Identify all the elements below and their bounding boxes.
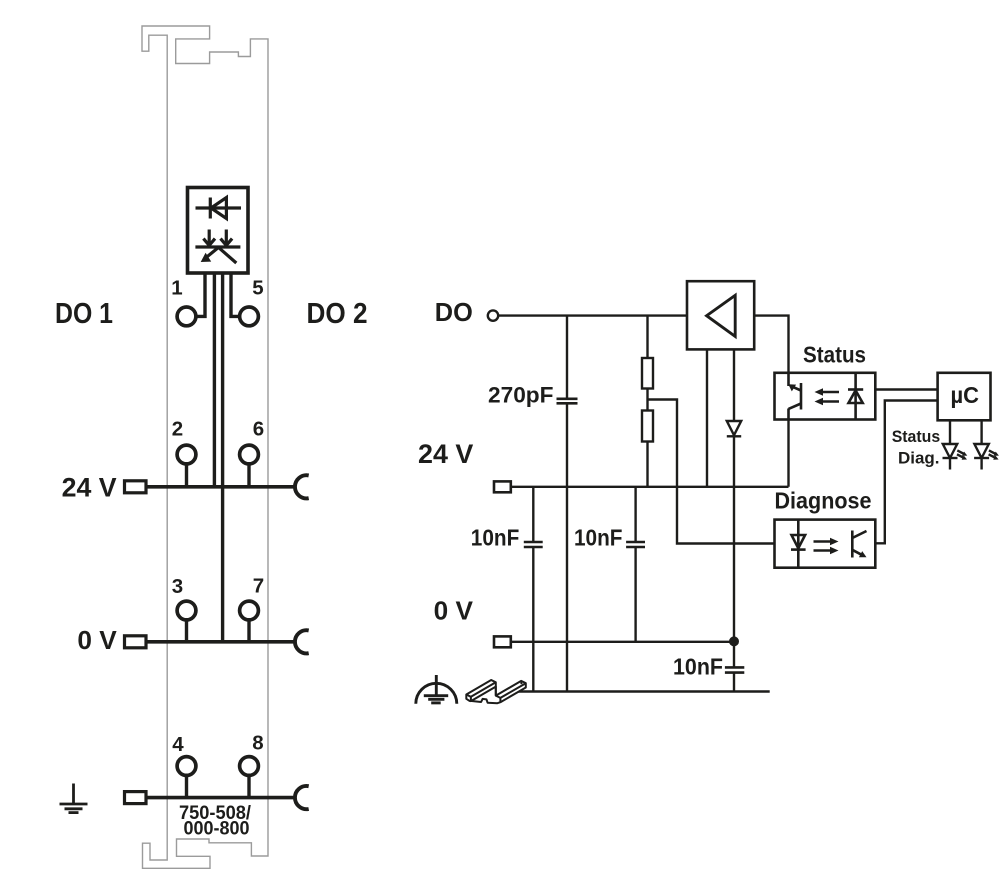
clamp opening earth: [125, 792, 147, 804]
capacitor C4 10nF: [725, 667, 744, 672]
LED Status indicator under uC: [943, 420, 968, 469]
pin 4 contact: [177, 757, 196, 776]
clamp symbol 24V (schematic): [494, 481, 511, 492]
suppressor diode in LED box: [196, 198, 242, 219]
resistor R1 wire upper: [646, 316, 648, 358]
op-amp U1 triangle: [707, 295, 736, 336]
wire DO to amplifier: [499, 314, 688, 316]
diode D1 (freewheel): [727, 421, 741, 436]
svg-text:Status: Status: [803, 342, 866, 368]
wire Status opto to 24V bus: [787, 420, 789, 487]
svg-text:Diagnose: Diagnose: [775, 488, 872, 514]
svg-text:10nF: 10nF: [574, 525, 623, 551]
phototransistor Q2 (Diagnose): [852, 531, 866, 558]
optocoupler U3 Diagnose box: [775, 520, 876, 568]
resistor R1: [642, 358, 653, 389]
functional earth dome symbol: [416, 675, 457, 704]
svg-text:0 V: 0 V: [434, 595, 474, 625]
capacitor C4 wire lower (to earth rail): [733, 673, 735, 692]
svg-text:Diag.: Diag.: [898, 450, 940, 468]
svg-text:10nF: 10nF: [673, 654, 723, 680]
pin 5 contact: [240, 307, 259, 326]
spring contact 24V (C shape): [295, 475, 309, 498]
svg-text:Status: Status: [892, 428, 941, 446]
capacitor C1 270pF wire upper: [566, 316, 568, 399]
wire pin5 to LED box: [231, 273, 239, 316]
DO terminal circle: [488, 310, 498, 320]
pin 2 contact: [177, 445, 196, 464]
svg-text:DO: DO: [435, 297, 473, 327]
LED symbol in LED box: [195, 230, 240, 264]
wire pin1 to LED box: [197, 273, 206, 316]
clamp opening 24V: [125, 481, 147, 493]
svg-text:270pF: 270pF: [488, 383, 554, 408]
resistor R2: [642, 411, 653, 442]
clamp opening 0V: [125, 636, 147, 648]
wire amp output to Status optocoupler: [754, 316, 789, 373]
pin 7 contact: [240, 601, 259, 620]
svg-text:0 V: 0 V: [77, 625, 117, 655]
svg-text:1: 1: [171, 277, 182, 300]
capacitor C2 10nF wire upper: [532, 487, 534, 542]
module outline (gray housing profile): [142, 26, 268, 868]
0V bus wire (schematic): [511, 641, 734, 643]
capacitor C3 10nF: [626, 542, 645, 547]
pin 6 stem: [247, 464, 250, 487]
pin 4 stem: [185, 775, 188, 797]
LED Diag indicator under uC: [974, 420, 999, 469]
24V bus wire (schematic): [511, 486, 789, 488]
pin 2 stem: [185, 464, 188, 487]
DIN rail (carrier rail) symbol: [466, 680, 526, 703]
svg-text:DO 1: DO 1: [55, 298, 113, 330]
LED (Diagnose opto): [791, 520, 806, 568]
op-amp U1 (output driver) box: [687, 281, 754, 349]
capacitor C3 10nF wire upper: [634, 487, 636, 542]
junction node 0V: [729, 636, 739, 646]
capacitor C1 270pF wire lower (to earth rail): [566, 403, 568, 691]
pin 8 stem: [247, 775, 250, 797]
pin 8 contact: [240, 757, 259, 776]
capacitor C3 wire lower (to 0V bus): [634, 547, 636, 642]
24V bus (module row): [146, 485, 297, 489]
spring contact earth (C shape): [295, 786, 309, 809]
wire R1 to R2: [646, 389, 648, 411]
pin 3 stem: [185, 620, 188, 642]
wire uC to Diagnose opto: [875, 401, 937, 544]
wire LED box to 0V bus: [221, 273, 224, 642]
0V bus (module row): [146, 640, 297, 644]
optocoupler U2 Status box: [775, 373, 876, 420]
LED indicator box U-LED: [188, 188, 249, 274]
svg-text:000-800: 000-800: [184, 819, 250, 840]
svg-text:10nF: 10nF: [471, 525, 520, 551]
svg-text:8: 8: [252, 732, 263, 755]
svg-text:µC: µC: [951, 382, 980, 408]
clamp symbol 0V (schematic): [494, 636, 511, 647]
pin 3 contact: [177, 601, 196, 620]
light arrows (Diagnose): [814, 538, 839, 555]
pin 1 contact: [177, 307, 196, 326]
capacitor C1 270pF: [557, 399, 578, 404]
svg-text:3: 3: [172, 575, 183, 598]
microcontroller U4 box: [938, 373, 991, 421]
wire R2 to 24V bus: [646, 442, 648, 487]
svg-text:7: 7: [253, 575, 264, 598]
pin 7 stem: [247, 620, 250, 642]
earth bus (module row): [146, 796, 297, 800]
wire LED box to 24V bus: [213, 273, 216, 487]
earth rail wire: [505, 690, 770, 692]
LED (Status opto): [848, 373, 863, 420]
svg-text:4: 4: [172, 733, 184, 756]
wire diode D1 to 0V node: [733, 436, 735, 642]
ground symbol (module, bottom left): [60, 784, 88, 813]
wire amp to diode D1: [733, 350, 735, 422]
svg-text:DO 2: DO 2: [307, 298, 368, 330]
wire amp to 24V bus: [706, 350, 708, 487]
svg-text:5: 5: [252, 277, 263, 300]
svg-text:24 V: 24 V: [418, 439, 474, 469]
phototransistor Q1 (Status): [788, 373, 801, 420]
light arrows (Status): [815, 388, 840, 405]
capacitor C2 wire lower (to earth rail): [532, 547, 534, 692]
wire R1/R2 node to Diagnose LED: [648, 400, 775, 544]
svg-text:6: 6: [253, 418, 264, 441]
pin 6 contact: [240, 445, 259, 464]
svg-text:24 V: 24 V: [62, 472, 117, 502]
capacitor C4 10nF wire upper: [733, 641, 735, 667]
capacitor C2 10nF: [524, 542, 543, 547]
svg-text:2: 2: [172, 418, 183, 441]
spring contact 0V (C shape): [295, 630, 309, 653]
wire Status opto to uC: [875, 388, 937, 390]
